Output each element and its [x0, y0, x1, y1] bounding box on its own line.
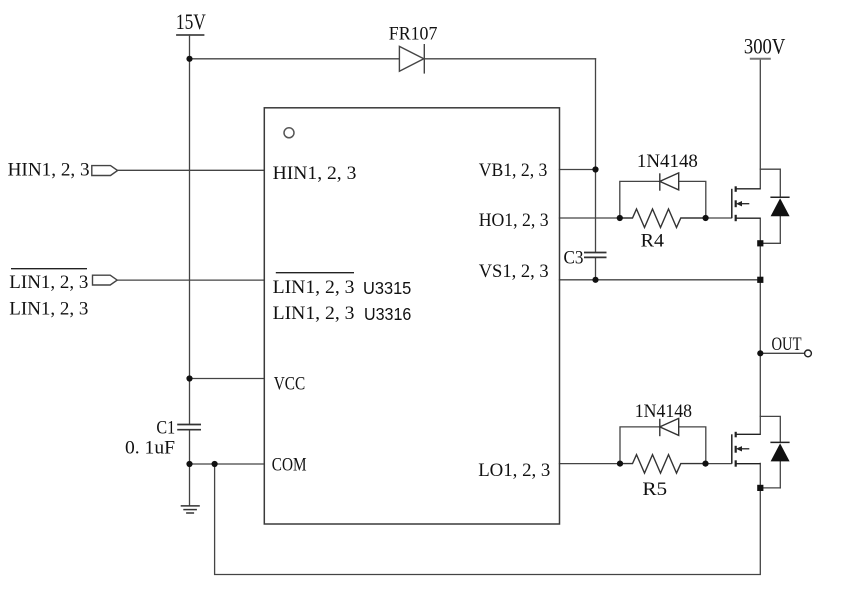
diode D3 1N4148 (lower) — [660, 418, 679, 436]
pin LIN1,2,3 overline — [276, 272, 354, 274]
node VB — [592, 166, 598, 172]
node R5 right — [702, 461, 708, 467]
svg-text:1N4148: 1N4148 — [635, 401, 692, 422]
svg-text:15V: 15V — [176, 9, 206, 34]
connector HIN1,2,3 — [92, 166, 118, 176]
op-amp U1 IC body U3315/U3316 — [264, 108, 559, 524]
wire D4 anode vertical — [779, 216, 781, 243]
node R4 left — [617, 215, 623, 221]
node VS at C3 — [592, 277, 598, 283]
svg-text:LIN1, 2, 3: LIN1, 2, 3 — [273, 277, 355, 298]
wire R4 to gate Q1 — [706, 217, 732, 219]
svg-text:C1: C1 — [156, 418, 175, 439]
wire branch to D4 cathode — [760, 169, 780, 197]
wire R5 to gate Q2 — [706, 463, 732, 465]
node VCC — [186, 375, 192, 381]
wire COM return down and across bottom — [215, 464, 761, 575]
svg-text:VS1, 2, 3: VS1, 2, 3 — [479, 261, 549, 282]
svg-text:COM: COM — [272, 455, 307, 476]
svg-text:LIN1, 2, 3: LIN1, 2, 3 — [9, 298, 88, 319]
node COM at rail — [186, 461, 192, 467]
svg-text:VB1, 2, 3: VB1, 2, 3 — [479, 160, 548, 181]
node OUT — [757, 350, 763, 356]
node COM return — [212, 461, 218, 467]
node VS at half-bridge — [757, 277, 763, 283]
wire Q1 source junction to D4 anode — [760, 242, 780, 244]
wire VS pin to half-bridge node — [560, 279, 761, 281]
svg-text:LIN1, 2, 3: LIN1, 2, 3 — [273, 303, 355, 324]
node OUT terminal circle — [805, 350, 812, 357]
svg-text:300V: 300V — [744, 34, 785, 59]
node Q2 source junction — [757, 485, 763, 491]
svg-text:LO1, 2, 3: LO1, 2, 3 — [478, 460, 550, 481]
diode D2 1N4148 (upper) — [660, 173, 679, 191]
diode FR107 — [399, 44, 424, 74]
wire D2 bypass loop upper — [620, 181, 706, 218]
wire Q1 source down through VS and OUT to Q2 drain — [759, 218, 761, 434]
wire 15V rail vertical upper — [189, 35, 191, 424]
svg-text:HIN1, 2, 3: HIN1, 2, 3 — [273, 163, 357, 184]
wire COM pin — [190, 463, 265, 465]
wire corner down to VB node — [595, 59, 597, 170]
wire OUT stub — [760, 352, 804, 354]
wire HO pin to R4 — [560, 217, 620, 219]
node 15V/top rail — [186, 56, 192, 62]
svg-text:1N4148: 1N4148 — [637, 151, 698, 172]
node R4 right — [703, 215, 709, 221]
resistor R5 — [620, 455, 706, 474]
diode D5 (body diode, lower) — [770, 442, 789, 461]
wire C3 bottom to VS — [595, 258, 597, 280]
svg-text:R5: R5 — [642, 479, 667, 500]
capacitor C1 — [177, 425, 201, 430]
power 15V bar — [177, 34, 204, 36]
wire VCC pin — [190, 378, 265, 380]
connector LIN1,2,3 — [93, 275, 118, 285]
ground — [181, 506, 200, 513]
svg-text:VCC: VCC — [274, 374, 306, 395]
wire HIN input to IC — [118, 169, 265, 171]
svg-text:U3316: U3316 — [364, 304, 411, 324]
transistor Q2 (low-side MOSFET) — [732, 432, 761, 467]
wire 15V rail vertical lower (below C1) — [189, 430, 191, 506]
transistor Q1 (high-side MOSFET) — [732, 186, 761, 221]
wire D5 anode vertical — [779, 461, 781, 488]
wire LIN input to IC — [117, 279, 264, 281]
svg-text:HO1, 2, 3: HO1, 2, 3 — [479, 210, 549, 231]
wire 300V rail down to Q1 drain — [759, 59, 761, 188]
wire VB pin to node — [560, 169, 596, 171]
wire branch to D5 cathode — [760, 416, 780, 442]
power 300V bar — [750, 58, 771, 60]
resistor R4 — [620, 209, 706, 228]
pin 1 marker circle — [284, 128, 294, 138]
wire Q2 source junction to D5 anode — [760, 487, 780, 489]
wire VB node down to C3 — [595, 170, 597, 253]
wire LO pin to R5 — [560, 463, 621, 465]
capacitor C3 — [584, 253, 607, 258]
diode D4 (body diode, upper) — [770, 197, 789, 216]
wire Q2 source down — [759, 463, 761, 488]
wire top rail to FR107 anode — [190, 58, 400, 60]
node R5 left — [617, 461, 623, 467]
svg-text:0. 1uF: 0. 1uF — [125, 438, 175, 459]
svg-text:OUT: OUT — [772, 334, 802, 355]
svg-text:U3315: U3315 — [363, 278, 411, 298]
svg-text:FR107: FR107 — [389, 24, 438, 45]
svg-text:R4: R4 — [641, 230, 665, 251]
node Q1 source junction — [757, 240, 763, 246]
svg-text:HIN1, 2, 3: HIN1, 2, 3 — [8, 160, 90, 181]
svg-text:LIN1, 2, 3: LIN1, 2, 3 — [9, 272, 88, 293]
wire D3 bypass loop lower — [620, 427, 706, 464]
label LIN1,2,3 overline (external) — [11, 268, 87, 270]
svg-text:C3: C3 — [564, 248, 584, 269]
wire FR107 cathode to corner — [424, 58, 595, 60]
